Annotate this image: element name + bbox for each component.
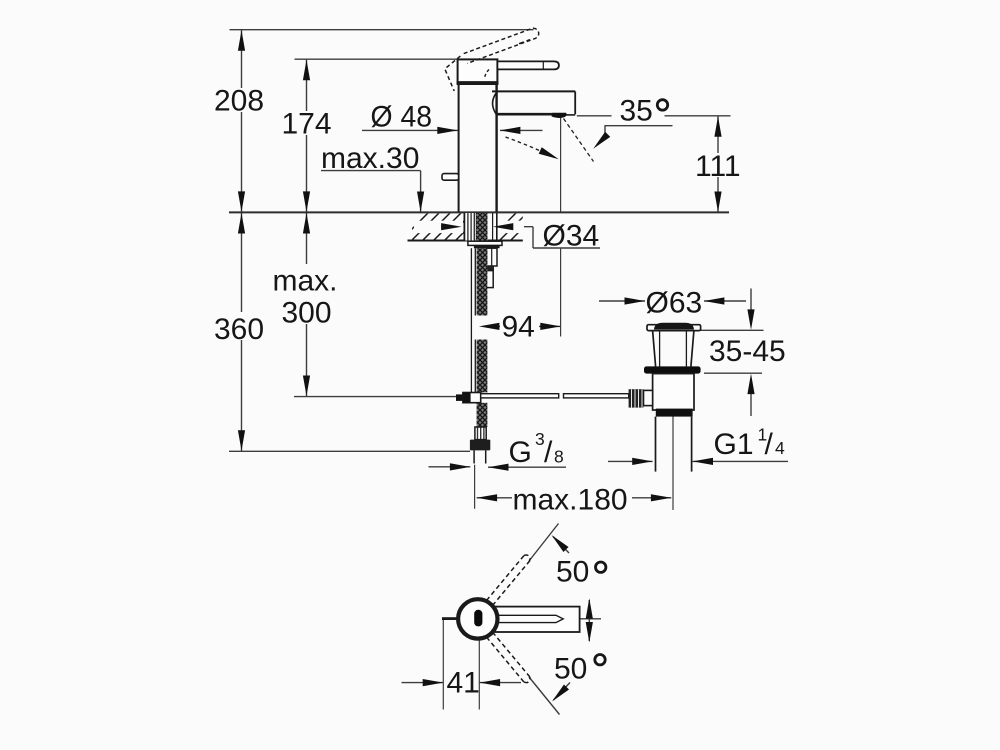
svg-text:max.30: max.30: [321, 142, 419, 175]
svg-text:4: 4: [775, 438, 785, 458]
svg-text:/: /: [765, 428, 774, 461]
svg-text:35: 35: [620, 94, 653, 127]
svg-text:Ø 48: Ø 48: [371, 101, 433, 134]
svg-text:360: 360: [214, 313, 264, 346]
svg-text:300: 300: [282, 297, 332, 330]
svg-text:Ø63: Ø63: [646, 287, 703, 320]
svg-text:max.: max.: [273, 265, 338, 298]
svg-text:Ø34: Ø34: [543, 220, 600, 253]
svg-text:208: 208: [214, 84, 264, 117]
svg-text:174: 174: [282, 107, 332, 140]
svg-text:G: G: [509, 436, 532, 469]
svg-text:max.180: max.180: [513, 483, 628, 516]
svg-text:41: 41: [447, 666, 480, 699]
svg-text:94: 94: [502, 311, 535, 344]
svg-text:50: 50: [554, 653, 587, 686]
svg-text:35-45: 35-45: [709, 335, 786, 368]
svg-text:8: 8: [554, 446, 564, 466]
svg-text:111: 111: [695, 150, 741, 183]
svg-text:G1: G1: [714, 428, 754, 461]
svg-text:50: 50: [556, 556, 589, 589]
svg-text:/: /: [544, 436, 553, 469]
